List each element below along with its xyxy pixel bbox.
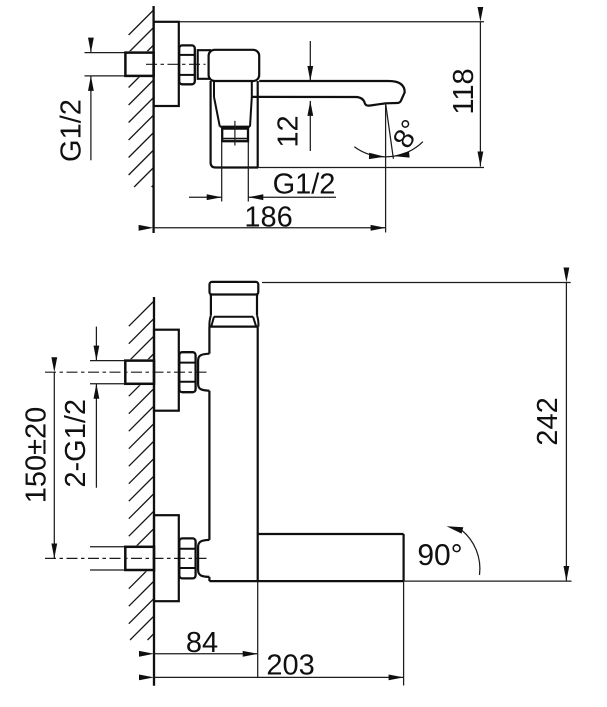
svg-text:G1/2: G1/2 <box>273 168 336 200</box>
svg-text:2-G1/2: 2-G1/2 <box>60 399 92 488</box>
svg-text:G1/2: G1/2 <box>56 99 88 162</box>
svg-text:12: 12 <box>272 115 304 147</box>
svg-text:242: 242 <box>532 397 564 445</box>
svg-text:186: 186 <box>244 201 292 233</box>
svg-text:90°: 90° <box>417 539 462 572</box>
svg-text:118: 118 <box>448 68 480 114</box>
svg-text:84: 84 <box>186 627 218 659</box>
svg-text:203: 203 <box>266 650 314 682</box>
svg-text:150±20: 150±20 <box>20 407 52 504</box>
